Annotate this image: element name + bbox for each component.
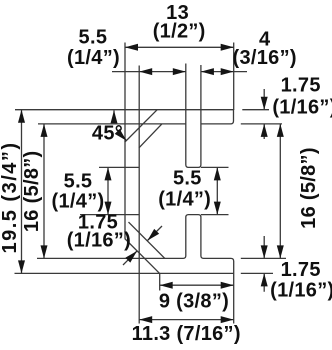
svg-text:(1/4”): (1/4”) <box>158 188 211 210</box>
dim shafts 1.75 bottom-right <box>263 236 265 292</box>
svg-text:(1/2”): (1/2”) <box>153 21 206 43</box>
profile outer bottom chamfer <box>125 239 160 274</box>
extension 13-dim right <box>233 43 235 111</box>
45deg leader shaft up <box>113 110 115 120</box>
extension stub bottom-right upper <box>241 257 286 259</box>
arrow 4 left <box>201 68 214 75</box>
svg-text:5.5: 5.5 <box>64 170 93 192</box>
svg-text:(1/16”): (1/16”) <box>67 229 131 251</box>
arrow 9 left <box>160 282 173 289</box>
extension stub mid-left top <box>99 166 139 168</box>
profile inner top chamfer <box>139 124 162 148</box>
extension 9-dim left <box>159 273 161 290</box>
dim line 19.5 left <box>21 110 23 274</box>
svg-text:(1/4”): (1/4”) <box>52 190 105 212</box>
extension stub mid-right top <box>201 166 229 168</box>
arrow 5.5top left <box>139 68 152 75</box>
arrow 5.5mL up <box>105 167 112 180</box>
dim line 16 left <box>43 124 45 259</box>
profile outer top chamfer <box>125 110 158 143</box>
arrow 1.75BR down <box>261 245 268 258</box>
dim line 13 <box>125 46 234 48</box>
svg-text:5.5: 5.5 <box>173 167 202 189</box>
arrow 1.75BR up <box>261 273 268 286</box>
svg-text:(3/16”): (3/16”) <box>233 47 297 69</box>
dim line 5.5 mid-left <box>107 167 109 214</box>
profile top arm outline <box>15 110 234 124</box>
dim line 9 <box>160 284 234 286</box>
svg-text:1.75: 1.75 <box>281 74 321 96</box>
dim line 4 top <box>201 71 247 73</box>
svg-text:(1/4”): (1/4”) <box>67 47 120 69</box>
svg-text:11.3 (7/16”): 11.3 (7/16”) <box>132 323 241 345</box>
profile bottom arm top + lower stem + right edge <box>37 215 234 324</box>
profile web outer edge + 13 extension <box>124 43 126 239</box>
svg-text:(1/16”): (1/16”) <box>272 96 332 118</box>
45deg leader shaft diag <box>120 132 127 141</box>
arrow 16L up <box>41 124 48 137</box>
arrow 16L down <box>41 245 48 258</box>
arrow 11.3 right <box>221 316 234 323</box>
svg-text:19.5 (3/4”): 19.5 (3/4”) <box>0 141 21 253</box>
arrow 5.5mR up <box>214 167 221 180</box>
arrow 9 right <box>221 282 234 289</box>
extension stub top-right lower <box>241 123 282 125</box>
arrow 13 right <box>221 44 234 51</box>
dim shafts 1.75 top-right <box>263 89 265 139</box>
arrow 13 left <box>125 44 138 51</box>
arrow 5.5mR down <box>214 202 221 215</box>
arrow 45deg diag <box>115 129 129 143</box>
arrow 45deg up <box>111 110 118 123</box>
profile inner bottom chamfer <box>129 222 165 258</box>
arrow 1.75TR up <box>261 124 268 137</box>
arrow 16R down <box>277 245 284 258</box>
arrow 11.3 left <box>139 316 152 323</box>
svg-text:45°: 45° <box>92 123 123 145</box>
svg-text:16 (5/8”): 16 (5/8”) <box>21 150 43 232</box>
dim line 16 right <box>279 124 281 259</box>
profile upper stem <box>186 64 201 168</box>
arrow 16R up <box>277 124 284 137</box>
extension stub top-right upper <box>242 109 269 111</box>
arrow 1.75TR down <box>261 97 268 110</box>
arrow 19.5 down <box>18 260 25 273</box>
profile bottom surface <box>15 272 234 274</box>
svg-text:16 (5/8”): 16 (5/8”) <box>298 147 320 229</box>
dim line 5.5 top <box>112 71 186 73</box>
dim line 11.3 <box>139 319 234 321</box>
svg-text:1.75: 1.75 <box>281 259 321 281</box>
extension stub mid-left bottom <box>80 214 139 216</box>
extension stub mid-right bottom <box>201 214 229 216</box>
extension stub bottom-right lower <box>241 272 273 274</box>
svg-text:5.5: 5.5 <box>79 27 108 49</box>
arrow 1.75L upper <box>145 229 159 243</box>
svg-text:(1/16”): (1/16”) <box>270 280 332 302</box>
arrow 5.5top right <box>173 68 186 75</box>
svg-text:9 (3/8”): 9 (3/8”) <box>159 290 229 312</box>
1.75-left leader shafts <box>123 226 162 265</box>
arrow 1.75L lower <box>125 249 139 263</box>
arrow 19.5 up <box>18 110 25 123</box>
arrow 5.5mL down <box>105 202 112 215</box>
dim line 5.5 mid-right <box>216 167 218 214</box>
arrow 4 right <box>221 68 234 75</box>
profile web inner edge + extensions <box>138 66 140 324</box>
